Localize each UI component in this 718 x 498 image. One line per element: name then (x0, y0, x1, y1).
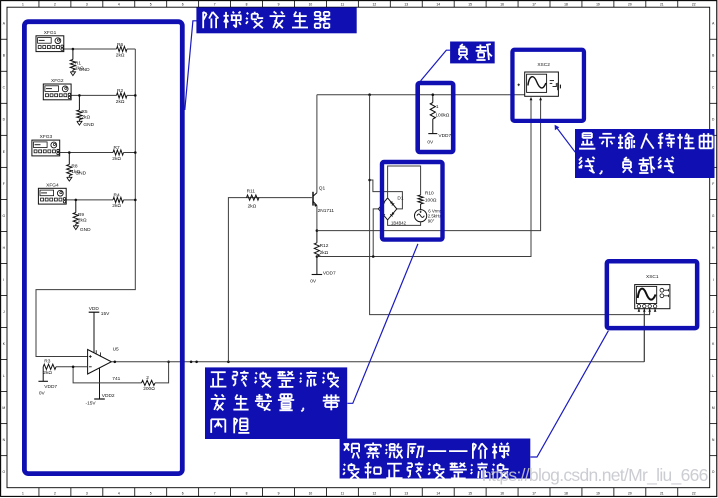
svg-text:VDD: VDD (89, 306, 100, 312)
svg-text:5: 5 (150, 491, 152, 495)
svg-text:12: 12 (372, 491, 376, 495)
svg-text:4: 4 (118, 2, 120, 6)
svg-text:22: 22 (692, 491, 696, 495)
svg-text:10: 10 (309, 491, 313, 495)
svg-text:2kΩ: 2kΩ (78, 217, 87, 223)
svg-text:R11: R11 (247, 189, 256, 195)
svg-text:2kΩ: 2kΩ (320, 250, 329, 256)
svg-text:16: 16 (500, 2, 504, 6)
svg-text:2kΩ: 2kΩ (248, 203, 257, 209)
svg-text:100kΩ: 100kΩ (435, 113, 449, 119)
svg-text:R3: R3 (44, 359, 50, 365)
svg-text:M: M (712, 406, 715, 410)
svg-text:G: G (712, 214, 715, 218)
svg-text:XSC1: XSC1 (646, 274, 659, 280)
svg-text:14: 14 (436, 491, 440, 495)
svg-text:2N1711: 2N1711 (318, 208, 335, 214)
svg-text:2: 2 (54, 2, 56, 6)
svg-text:11: 11 (341, 2, 345, 6)
svg-text:2kΩ: 2kΩ (116, 53, 125, 59)
svg-text:3: 3 (86, 491, 88, 495)
svg-text:F: F (3, 182, 5, 186)
svg-text:2kΩ: 2kΩ (112, 156, 121, 162)
svg-text:10: 10 (309, 2, 313, 6)
svg-text:XSC2: XSC2 (537, 62, 550, 68)
svg-text:9: 9 (278, 2, 280, 6)
svg-text:15: 15 (468, 2, 472, 6)
svg-text:Q1: Q1 (319, 186, 326, 192)
svg-text:8: 8 (246, 2, 248, 6)
svg-text:XFG2: XFG2 (51, 78, 64, 84)
svg-text:3: 3 (86, 2, 88, 6)
svg-text:7: 7 (214, 491, 216, 495)
svg-text:6: 6 (182, 491, 184, 495)
svg-text:19: 19 (596, 2, 600, 6)
svg-text:https://blog.csdn.net/Mr_liu_6: https://blog.csdn.net/Mr_liu_666 (482, 465, 708, 486)
svg-text:R2: R2 (117, 88, 123, 94)
svg-text:200Ω: 200Ω (143, 386, 155, 392)
svg-text:13: 13 (404, 491, 408, 495)
svg-text:R12: R12 (320, 243, 329, 249)
svg-text:8: 8 (246, 491, 248, 495)
svg-text:R1: R1 (75, 61, 81, 67)
svg-text:22: 22 (692, 2, 696, 6)
svg-text:0V: 0V (310, 279, 317, 285)
svg-text:12: 12 (372, 2, 376, 6)
svg-text:VDD7: VDD7 (438, 133, 451, 139)
svg-text:14: 14 (436, 2, 440, 6)
svg-text:R8: R8 (71, 164, 77, 170)
svg-text:1: 1 (22, 2, 24, 6)
svg-text:18: 18 (564, 491, 568, 495)
svg-text:100Ω: 100Ω (425, 198, 437, 204)
svg-text:O: O (712, 470, 715, 474)
svg-text:2kΩ: 2kΩ (116, 99, 125, 105)
svg-text:9: 9 (278, 491, 280, 495)
svg-text:U5: U5 (113, 347, 119, 353)
svg-text:741: 741 (112, 376, 120, 382)
svg-text:G: G (3, 214, 6, 218)
svg-text:2kΩ: 2kΩ (81, 114, 90, 120)
svg-text:R10: R10 (425, 191, 434, 197)
svg-text:GND: GND (80, 227, 91, 233)
svg-text:20: 20 (628, 2, 632, 6)
svg-text:15: 15 (468, 491, 472, 495)
svg-text:GND: GND (75, 170, 86, 176)
svg-text:17: 17 (532, 2, 536, 6)
svg-text:R4: R4 (114, 192, 120, 198)
svg-text:R9: R9 (78, 212, 84, 218)
svg-text:16: 16 (500, 491, 504, 495)
svg-text:2kΩ: 2kΩ (43, 370, 52, 376)
svg-text:XFG4: XFG4 (46, 182, 59, 188)
svg-text:M: M (2, 406, 5, 410)
svg-text:1B4B42: 1B4B42 (391, 220, 407, 225)
svg-text:I: I (713, 278, 714, 282)
svg-text:-15V: -15V (86, 401, 97, 407)
svg-text:R7: R7 (114, 145, 120, 151)
svg-text:I: I (3, 278, 4, 282)
svg-text:0V: 0V (427, 139, 434, 145)
svg-text:L: L (3, 374, 5, 378)
svg-text:21: 21 (660, 491, 664, 495)
svg-text:15V: 15V (101, 311, 110, 317)
svg-text:2: 2 (54, 491, 56, 495)
svg-text:R6: R6 (117, 42, 123, 48)
svg-text:19: 19 (596, 491, 600, 495)
svg-text:17: 17 (532, 491, 536, 495)
svg-text:GND: GND (83, 122, 94, 128)
svg-text:D1: D1 (397, 196, 403, 202)
svg-text:0V: 0V (39, 391, 46, 397)
svg-text:90°: 90° (428, 219, 435, 224)
svg-text:VDD7: VDD7 (44, 384, 57, 390)
svg-text:13: 13 (404, 2, 408, 6)
svg-text:L: L (712, 374, 714, 378)
svg-text:6: 6 (182, 2, 184, 6)
svg-text:2: 2 (146, 375, 149, 381)
svg-text:18: 18 (564, 2, 568, 6)
svg-text:21: 21 (660, 2, 664, 6)
svg-text:GND: GND (79, 67, 90, 73)
svg-text:1: 1 (22, 491, 24, 495)
svg-text:F: F (712, 182, 714, 186)
svg-text:XFG3: XFG3 (40, 134, 53, 140)
svg-text:1: 1 (436, 104, 439, 110)
svg-text:VDD7: VDD7 (323, 271, 336, 277)
svg-text:11: 11 (341, 491, 345, 495)
svg-text:20: 20 (628, 491, 632, 495)
svg-text:R5: R5 (81, 109, 87, 115)
svg-text:2kΩ: 2kΩ (112, 203, 121, 209)
svg-text:VDD2: VDD2 (102, 393, 115, 399)
svg-text:O: O (3, 470, 6, 474)
svg-text:7: 7 (214, 2, 216, 6)
svg-text:4: 4 (118, 491, 120, 495)
svg-text:XFG1: XFG1 (44, 30, 57, 36)
svg-text:5: 5 (150, 2, 152, 6)
